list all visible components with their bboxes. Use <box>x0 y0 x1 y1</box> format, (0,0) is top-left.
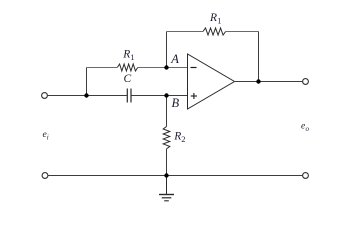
wire: feedback top left segment <box>167 31 204 33</box>
bottom-left terminal <box>42 173 48 179</box>
svg-text:C: C <box>124 73 132 85</box>
svg-text:i: i <box>47 134 49 142</box>
output terminal (right) <box>303 79 309 85</box>
wire: R1 branch right segment to node A <box>138 67 188 69</box>
op-amp U1 <box>188 54 235 109</box>
wire: node A up to feedback loop <box>166 32 168 68</box>
node: output junction <box>256 79 260 83</box>
svg-text:2: 2 <box>181 134 185 144</box>
svg-text:R: R <box>122 49 130 61</box>
node A (junction dot) <box>164 65 168 69</box>
resistor R1 (feedback) <box>203 28 226 35</box>
op-amp minus sign <box>191 67 197 69</box>
wire: feedback down to output node <box>258 32 260 82</box>
input terminal (left) <box>42 93 48 99</box>
node B (junction dot) <box>164 93 168 97</box>
resistor R2 <box>163 127 170 149</box>
node: input junction <box>84 93 88 97</box>
wire: R2 to bottom rail <box>166 149 168 176</box>
svg-text:B: B <box>172 96 180 110</box>
ground <box>159 176 174 201</box>
capacitor C <box>127 89 131 103</box>
wire: junction up to R1 branch <box>86 68 88 96</box>
wire: node B down to R2 <box>166 96 168 127</box>
resistor R1 (input branch) <box>117 64 137 71</box>
svg-text:R: R <box>173 131 181 143</box>
op-amp plus sign <box>191 93 197 99</box>
svg-text:o: o <box>306 125 310 133</box>
wire: input to capacitor left plate <box>48 95 128 97</box>
bottom-right terminal <box>303 173 309 179</box>
svg-text:R: R <box>209 12 217 24</box>
wire: op-amp output <box>234 81 303 83</box>
svg-text:1: 1 <box>217 16 221 26</box>
svg-text:1: 1 <box>130 52 134 62</box>
wire: capacitor right plate to op-amp + input (through node B) <box>132 95 188 97</box>
wire: bottom rail <box>48 175 303 177</box>
wire: feedback top right segment <box>226 31 259 33</box>
svg-text:A: A <box>170 52 179 66</box>
wire: R1 branch left segment <box>87 67 118 69</box>
node: ground junction <box>164 173 168 177</box>
